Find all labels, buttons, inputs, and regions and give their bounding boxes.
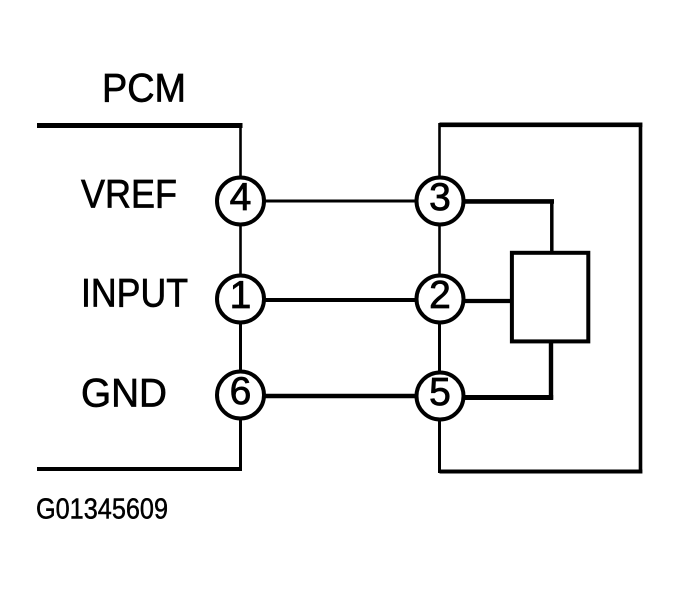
- pin 2: [417, 274, 464, 323]
- wire stub to pin 4: [239, 123, 242, 180]
- pin 5: [417, 371, 464, 420]
- svg-text:5: 5: [429, 371, 451, 414]
- svg-text:PCM: PCM: [102, 67, 186, 111]
- svg-text:6: 6: [230, 370, 252, 413]
- wire INPUT pin 1 to pin 2: [263, 298, 418, 302]
- svg-text:2: 2: [429, 274, 451, 317]
- wire pin 3 to sensor (corner): [462, 200, 554, 255]
- svg-text:GND: GND: [81, 372, 167, 416]
- pin 6: [217, 370, 264, 419]
- svg-text:3: 3: [429, 176, 451, 219]
- wire PCM connector edge pin 4 to pin 1: [239, 223, 242, 277]
- pin 4: [217, 176, 264, 225]
- wire pin 2 to sensor: [462, 299, 513, 303]
- wire VREF pin 4 to pin 3: [263, 200, 418, 203]
- svg-text:G01345609: G01345609: [36, 494, 168, 526]
- svg-text:4: 4: [230, 176, 252, 219]
- pin 3: [417, 176, 464, 225]
- wire PCM connector edge pin 1 to pin 6: [239, 321, 242, 374]
- wire PCM connector bottom edge: [37, 467, 242, 471]
- svg-text:INPUT: INPUT: [81, 272, 188, 316]
- sensor connector outline: [440, 123, 643, 474]
- svg-text:1: 1: [230, 274, 252, 317]
- wire GND pin 6 to pin 5: [263, 394, 418, 399]
- sensor box: [512, 253, 588, 342]
- svg-text:VREF: VREF: [81, 173, 177, 217]
- pin 1: [217, 274, 264, 323]
- wire stub below pin 6: [239, 417, 242, 471]
- wire sensor to pin 5 (corner): [462, 340, 553, 400]
- wire PCM connector top edge: [37, 123, 243, 128]
